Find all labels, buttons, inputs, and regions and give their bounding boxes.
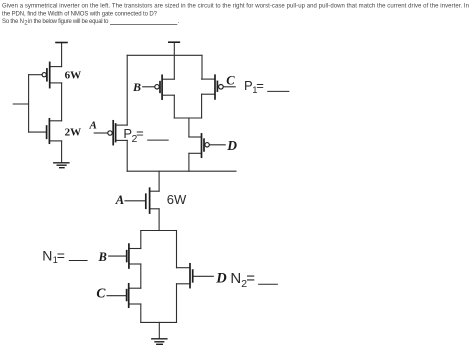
svg-text:6W: 6W xyxy=(65,69,82,81)
svg-text:=: = xyxy=(136,125,144,140)
svg-text:So the N: So the N xyxy=(2,19,24,25)
svg-text:.: . xyxy=(178,19,180,25)
svg-text:A: A xyxy=(115,193,124,207)
svg-text:N: N xyxy=(230,270,241,287)
svg-text:D: D xyxy=(226,138,237,153)
svg-text:C: C xyxy=(96,286,106,301)
svg-text:6W: 6W xyxy=(167,192,187,207)
svg-text:Given a symmetrical inverter o: Given a symmetrical inverter on the left… xyxy=(2,4,469,10)
svg-text:N: N xyxy=(42,247,52,263)
svg-text:2W: 2W xyxy=(65,126,82,138)
svg-text:A: A xyxy=(89,120,97,132)
svg-text:in the below figure will be eq: in the below figure will be equal to xyxy=(28,19,109,25)
svg-text:B: B xyxy=(132,80,141,94)
svg-text:=: = xyxy=(256,78,264,93)
svg-text:D: D xyxy=(215,271,227,287)
svg-text:the PDN, find the Width of NMO: the PDN, find the Width of NMOS with gat… xyxy=(2,11,158,17)
svg-text:=: = xyxy=(246,270,255,287)
svg-text:=: = xyxy=(57,247,65,263)
svg-text:B: B xyxy=(98,250,107,264)
svg-text:C: C xyxy=(226,73,235,87)
